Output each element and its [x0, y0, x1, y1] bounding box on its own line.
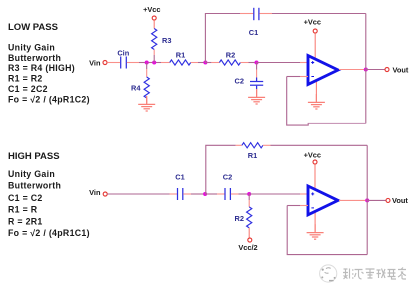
svg-text:R = 2R1: R = 2R1: [8, 216, 43, 226]
text low-pass description block: [8, 43, 90, 105]
svg-text:C1 = C2: C1 = C2: [8, 193, 43, 203]
wire C2 to node G: [231, 193, 249, 195]
wire C1 right stub to Vout rail: [259, 13, 365, 15]
wire feedback bottom right segment: [308, 122, 366, 124]
terminal Vin (low-pass): [103, 61, 107, 65]
svg-text:Vin: Vin: [89, 58, 101, 67]
svg-text:C1 = 2C2: C1 = 2C2: [8, 84, 48, 94]
wire node A to R4: [146, 63, 148, 78]
junction node C (C1 feedback tap): [203, 61, 207, 65]
wire +Vcc to op-amp U1: [314, 33, 316, 59]
ground (C2): [248, 89, 265, 104]
capacitor Cin: [117, 48, 129, 68]
power +Vcc terminal (R3 top): [143, 5, 160, 20]
wire node A to node B: [147, 62, 155, 64]
wire R1 right stub to Vout rail: [263, 144, 367, 146]
wire feedback to op-amp - input: [287, 76, 308, 78]
capacitor C2 (high-pass): [223, 173, 232, 201]
ground (op-amp U1): [308, 94, 325, 109]
svg-text:Unity Gain: Unity Gain: [8, 169, 55, 179]
svg-text:Fo = √2 / (4pR1C2): Fo = √2 / (4pR1C2): [8, 94, 90, 104]
wire node G to op-amp + input: [249, 193, 308, 195]
op-amp U1: [308, 56, 338, 85]
svg-text:Unity Gain: Unity Gain: [8, 43, 55, 53]
junction node H (output): [365, 198, 369, 202]
ground (R4): [138, 96, 155, 111]
svg-text:+Vcc: +Vcc: [304, 17, 321, 26]
junction node A (R4 tap): [145, 61, 149, 65]
svg-text:HIGH PASS: HIGH PASS: [8, 151, 60, 162]
wire R2 to Vcc/2 terminal: [248, 228, 250, 238]
svg-text:Vcc/2: Vcc/2: [238, 243, 257, 252]
junction node F (R1 feedback tap): [203, 192, 207, 196]
junction node D (C2 tap): [255, 61, 259, 65]
junction node B (R3 tap): [152, 61, 156, 65]
wire node H to Vout terminal: [367, 199, 386, 201]
wire node G down to R2: [248, 194, 250, 207]
svg-text:R1 = R: R1 = R: [8, 205, 38, 215]
junction node G (R2 tap): [247, 192, 251, 196]
wire feedback bottom left segment: [287, 77, 309, 126]
wire node C to R2: [205, 62, 219, 64]
svg-text:R4: R4: [131, 84, 141, 93]
svg-text:R2: R2: [235, 214, 244, 223]
wire Vout rail vertical (C1 right to feedback bottom): [365, 14, 367, 124]
wire +Vcc to op-amp U2: [314, 164, 316, 190]
wire node F to C2: [205, 193, 224, 195]
resistor R2: [219, 51, 240, 66]
op-amp U2: [308, 186, 338, 215]
wire R3 to node B: [153, 50, 155, 63]
ground (op-amp U2): [307, 224, 324, 239]
power +Vcc terminal (op-amp U2): [304, 151, 321, 165]
wire node D to op-amp + input: [257, 62, 309, 64]
svg-text:Vin: Vin: [89, 188, 101, 197]
wire op-amp U1 to ground: [315, 81, 317, 102]
wire R4 to ground: [146, 98, 148, 104]
wire C1 left stub: [240, 13, 253, 15]
svg-text:C2: C2: [223, 173, 232, 182]
wire node C up to C1 feedback rail: [205, 14, 240, 63]
terminal Vout (low-pass): [385, 68, 389, 72]
capacitor C2 (low-pass): [235, 77, 264, 90]
logo watermark icon: [320, 265, 337, 282]
svg-text:R1: R1: [248, 151, 257, 160]
svg-text:Butterworth: Butterworth: [8, 53, 61, 63]
resistor R3: [152, 29, 172, 50]
svg-text:R1: R1: [176, 51, 185, 60]
wire node E to Vout terminal: [366, 69, 385, 71]
wire op-amp U2 to ground: [314, 211, 316, 232]
wire Vin to C1: [107, 193, 177, 195]
wire R1 left stub: [236, 144, 242, 146]
logo watermark text: [343, 268, 406, 280]
wire feedback bottom (high-pass): [287, 206, 367, 255]
svg-text:+Vcc: +Vcc: [304, 151, 321, 160]
text high-pass description block: [8, 169, 90, 238]
capacitor C1 (low-pass feedback): [249, 8, 259, 37]
wire node B to R1: [154, 62, 170, 64]
wire +Vcc to R3: [153, 20, 155, 28]
resistor R4: [131, 77, 149, 98]
svg-text:C2: C2: [235, 77, 244, 86]
wire R1 to node C: [191, 62, 206, 64]
wire C1 to node F: [183, 193, 205, 195]
wire Vout rail vertical (R1 right to feedback bottom): [366, 145, 368, 254]
power +Vcc terminal (op-amp U1): [304, 17, 321, 33]
wire Vin to Cin: [107, 62, 120, 64]
capacitor C1 (high-pass): [175, 173, 184, 201]
svg-text:Vout: Vout: [392, 196, 408, 205]
wire C2 to ground: [256, 89, 258, 96]
svg-text:Butterworth: Butterworth: [8, 181, 61, 191]
svg-text:Vout: Vout: [393, 65, 409, 74]
resistor R1: [170, 51, 191, 66]
resistor R2 (high-pass): [235, 207, 252, 228]
terminal Vout (high-pass): [386, 198, 390, 202]
junction node E (output): [364, 68, 368, 72]
wire op-amp U1 output to node E: [339, 69, 366, 71]
svg-text:R1 = R2: R1 = R2: [8, 74, 43, 84]
wire Cin to node A: [127, 62, 147, 64]
svg-text:C1: C1: [249, 28, 258, 37]
svg-text:LOW PASS: LOW PASS: [8, 22, 58, 33]
resistor R1 (high-pass feedback): [242, 143, 263, 160]
svg-text:Cin: Cin: [117, 48, 129, 57]
wire node D down to C2: [256, 63, 258, 78]
svg-text:C1: C1: [175, 173, 184, 182]
svg-text:R2: R2: [226, 51, 235, 60]
svg-text:+Vcc: +Vcc: [143, 5, 160, 14]
terminal Vcc/2: [248, 238, 252, 242]
svg-text:R3 = R4 (HIGH): R3 = R4 (HIGH): [8, 63, 75, 73]
wire op-amp U2 output to node H: [339, 199, 367, 201]
terminal Vin (high-pass): [103, 192, 107, 196]
wire node F up to R1 feedback rail: [206, 145, 236, 194]
svg-text:R3: R3: [162, 36, 171, 45]
wire feedback to op-amp U2 - input: [287, 205, 308, 207]
svg-text:Fo = √2 / (4pR1C1): Fo = √2 / (4pR1C1): [8, 228, 90, 238]
wire R2 to node D: [240, 62, 256, 64]
